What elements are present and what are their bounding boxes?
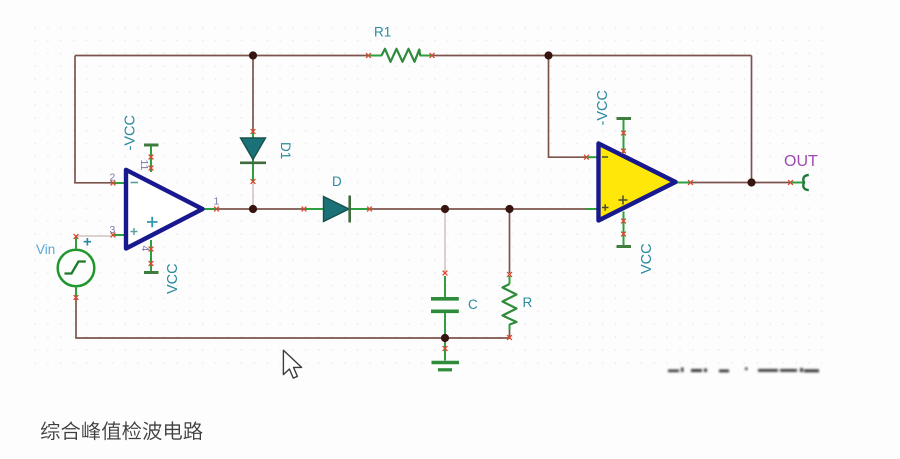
svg-text:R1: R1 (374, 25, 391, 40)
svg-text:R: R (523, 295, 533, 310)
svg-text:11: 11 (138, 160, 150, 171)
svg-text:VCC: VCC (639, 243, 655, 274)
svg-text:-VCC: -VCC (595, 90, 611, 125)
svg-text:Vin: Vin (36, 242, 55, 257)
svg-text:1: 1 (214, 196, 220, 208)
svg-text:4: 4 (139, 246, 151, 252)
svg-text:C: C (468, 297, 478, 312)
svg-text:VCC: VCC (165, 263, 181, 294)
svg-text:3: 3 (110, 224, 116, 236)
svg-text:OUT: OUT (784, 153, 818, 170)
svg-text:2: 2 (110, 172, 116, 184)
svg-text:+: + (83, 234, 92, 251)
svg-text:-VCC: -VCC (123, 115, 139, 150)
svg-text:D: D (332, 174, 342, 189)
svg-text:D1: D1 (278, 142, 293, 159)
